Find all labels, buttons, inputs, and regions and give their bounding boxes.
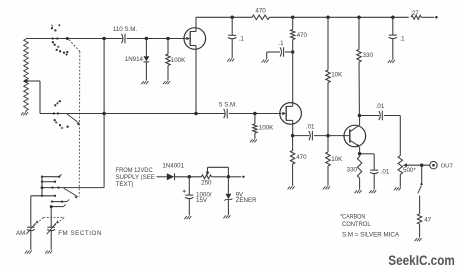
node junction (R5 top) (326, 16, 330, 20)
svg-text:330: 330 (347, 167, 358, 174)
node junction (Q3 collector) (358, 114, 362, 118)
wire (to 9V terminal) (228, 176, 241, 178)
svg-text:500*: 500* (403, 167, 416, 174)
label 5 S.M. (219, 102, 237, 109)
svg-text:27: 27 (412, 10, 419, 17)
ground (C3) (262, 60, 269, 63)
svg-text:470: 470 (296, 154, 307, 161)
ground (R7) (288, 186, 295, 189)
ground (AM cap) (25, 251, 32, 254)
resistor R2 470 (rail) (252, 15, 269, 19)
svg-text:470: 470 (255, 8, 266, 15)
node junction (base divider) (326, 134, 330, 138)
resistor R5 10K (divider upper) (326, 17, 330, 135)
ground (R12) (415, 238, 422, 241)
node junction (R1) (166, 37, 170, 41)
ground (R1) (163, 81, 170, 84)
resistor R4 100K (Q2 gate) (253, 114, 257, 139)
svg-text:CONTROL: CONTROL (342, 221, 371, 228)
label 1000/ (196, 191, 212, 198)
wire (S1c common bar to vertical, y=187.6) (42, 187, 104, 189)
rotary switch S1a wiper (dashed) (69, 40, 80, 52)
capacitor C9 1000/15V (electrolytic) (183, 177, 194, 216)
transistor Q3 (BJT) (344, 125, 366, 147)
variable capacitor C-FM (47, 220, 59, 249)
node junction (Q1 source / S1b line) (194, 112, 198, 116)
wire (Q3 collector) (359, 116, 361, 126)
svg-text:.1: .1 (399, 35, 405, 42)
label 500* (403, 167, 416, 174)
resistor R7 470 (Q2 source) (290, 136, 294, 186)
note *CARBON (340, 213, 365, 220)
svg-text:ZENER: ZENER (236, 197, 258, 204)
label 9V (236, 191, 244, 198)
label TEXT) (116, 181, 134, 188)
note CONTROL (342, 221, 371, 228)
label 470 (R7) (296, 154, 307, 161)
svg-text:TEXT): TEXT) (116, 181, 134, 188)
ground (C6) (369, 190, 376, 193)
label 470 (R3) (297, 32, 308, 39)
note S.M = SILVER MICA (342, 232, 400, 239)
label FM SECTION (58, 230, 102, 237)
svg-text:S.M = SILVER MICA: S.M = SILVER MICA (342, 232, 400, 239)
resistor R12 47 (417, 214, 421, 238)
ground (R11) (394, 187, 401, 190)
rheostat R13 wiper loop (206, 167, 229, 177)
label OUT (441, 164, 454, 170)
resistor R10 330 (emitter) (357, 154, 361, 190)
rotary switch S1c contact bars (31, 174, 62, 197)
wire (Q2 source) (292, 120, 294, 135)
diode D1 1N914 (144, 39, 150, 81)
watermark SeekIC.com (388, 252, 455, 268)
node junction (C7 top) (391, 16, 395, 20)
rotary switch S1a contacts (51, 24, 69, 56)
svg-text:.01: .01 (376, 103, 385, 110)
ground (D3) (223, 215, 230, 218)
label 47 (R12) (424, 217, 431, 224)
potentiometer R11 wiper (403, 163, 430, 167)
switch S2 (418, 183, 423, 214)
rheostat R13 250 (202, 175, 227, 179)
label 100K (R1) (171, 57, 186, 64)
wire (supply in) (157, 176, 167, 178)
ground (coil L1) (21, 112, 28, 115)
rotary switch S1c contacts on common (41, 186, 60, 189)
transistor Q1 (FET) (184, 28, 206, 50)
capacitor C2 .1 (decoupling) (228, 17, 236, 58)
capacitor C6 .01 (emitter bypass) (360, 154, 379, 190)
wire (wiper junction down) (421, 165, 423, 183)
svg-text:5 S.M.: 5 S.M. (219, 102, 237, 109)
terminal OUT (430, 162, 437, 169)
label 110 S.M. (113, 26, 138, 33)
wire (Q3 emitter) (359, 147, 361, 154)
wire (coil top to band switch, y=38.5) (26, 38, 122, 40)
resistor R3 470 (Q2 drain) (291, 17, 295, 52)
svg-text:OUT: OUT (441, 164, 454, 170)
svg-text:*CARBON: *CARBON (340, 213, 365, 220)
node coil tap (24, 79, 28, 83)
capacitor C1 110 S.M. (122, 34, 126, 44)
label .1 (C2) (239, 36, 245, 43)
gang linkage (dashed, variable caps) (32, 217, 65, 227)
capacitor C8 .01 (output coupling) (359, 111, 400, 121)
diode D2 1N4001 (167, 173, 202, 180)
capacitor C7 .1 (rail bypass) (389, 17, 397, 59)
variable capacitor C-AM (26, 220, 38, 249)
ground (C9) (184, 216, 191, 219)
node junction (diode D1) (145, 37, 149, 41)
wire (Q1 drain) (195, 17, 197, 31)
label FROM 12VDC (116, 167, 153, 174)
label 250 (R13) (201, 179, 212, 186)
label 1N914 (125, 56, 144, 63)
svg-text:1N4001: 1N4001 (162, 163, 184, 170)
label 100K (R4) (259, 125, 274, 132)
rotary switch S1d contact bars (50, 199, 69, 208)
svg-text:AM: AM (16, 230, 25, 237)
svg-text:15V: 15V (196, 197, 208, 204)
node junction (Q3 emitter) (358, 152, 362, 156)
node junction (C2) (230, 16, 234, 20)
wire (top supply rail mid) (269, 16, 408, 18)
label ZENER (236, 197, 258, 204)
svg-text:FM SECTION: FM SECTION (58, 230, 102, 237)
label 470 (R2) (255, 8, 266, 15)
label .01 (C8) (376, 103, 385, 110)
capacitor C5 .01 (interstage) (293, 131, 350, 141)
svg-text:10K: 10K (331, 72, 343, 79)
label .1 (C7) (399, 35, 405, 42)
node junction (gate line / vertical) (102, 37, 106, 41)
wire (C1 to Q1 gate) (127, 38, 186, 40)
resistor R8 10K (divider lower) (326, 136, 330, 186)
ground (R8) (323, 186, 330, 189)
svg-text:1N914: 1N914 (125, 56, 144, 63)
svg-text:47: 47 (424, 217, 431, 224)
node junction (wiper / switch) (420, 163, 424, 167)
svg-text:100K: 100K (259, 125, 274, 132)
resistor R6 330 (collector load) (357, 17, 361, 115)
wire (Q1 source) (195, 46, 197, 114)
svg-text:SeekIC.com: SeekIC.com (388, 252, 455, 268)
switch gang linkage (dashed vertical) (78, 52, 81, 197)
wire (S1d to FM cap) (50, 207, 52, 227)
svg-text:.1: .1 (239, 36, 245, 43)
node 9V terminal (242, 176, 244, 178)
ground (FM cap) (45, 251, 52, 254)
rotary switch S1b contacts (53, 100, 69, 129)
potentiometer R11 500 (carbon) (398, 156, 402, 187)
wire (coil tap to S1b) (26, 81, 40, 114)
label 330 (R10) (347, 167, 358, 174)
label .1 (C3) (278, 40, 284, 47)
node junction (zener) (227, 175, 231, 179)
resistor R9 27 (411, 15, 421, 19)
wire (rail to supply terminal) (421, 16, 434, 18)
wire (top supply rail left) (196, 16, 252, 18)
node junction (R6 top) (357, 16, 361, 20)
diode D3 9V zener (225, 177, 233, 215)
capacitor C3 .1 (Q2 drain bypass) (267, 47, 293, 59)
node supply terminal (435, 16, 438, 19)
ground (C7) (388, 60, 395, 63)
label 15V (196, 197, 208, 204)
capacitor C4 5 S.M. (224, 109, 228, 119)
wire (S1c bar to AM cap) (30, 196, 32, 227)
svg-text:.01: .01 (306, 123, 315, 130)
ground (C2) (227, 59, 234, 62)
svg-text:110 S.M.: 110 S.M. (113, 26, 138, 33)
svg-text:.01: .01 (381, 169, 390, 176)
ground (R10) (355, 190, 362, 193)
label AM (16, 230, 25, 237)
node junction (S1b line / vertical) (102, 112, 106, 116)
node junction (R3 top) (291, 16, 295, 20)
transistor Q2 (FET) (280, 103, 302, 125)
svg-text:SUPPLY (SEE: SUPPLY (SEE (116, 174, 155, 181)
node junction (C9) (188, 175, 192, 179)
node junction (Q2 source) (291, 134, 295, 138)
wire (C8 to volume pot) (399, 116, 401, 156)
wire (S1b line y=113.5) (40, 113, 225, 115)
ground (D1) (141, 81, 148, 84)
label 10K (R8) (331, 156, 343, 163)
svg-text:250: 250 (201, 179, 212, 186)
wire (top line to S1c, x=104.2) (103, 39, 105, 188)
rotary switch S1b wiper (67, 114, 80, 126)
rotary switch S1c wiper (64, 188, 78, 198)
label 10K (R5) (331, 72, 343, 79)
label .01 (C6) (381, 169, 390, 176)
svg-text:330: 330 (363, 52, 374, 59)
wire (C4 to Q2 gate) (229, 113, 282, 115)
coil L1 (antenna/tuning coil) (24, 39, 29, 112)
wire (Q2 drain) (292, 52, 294, 106)
node junction (Q2 drain / C3) (291, 50, 295, 54)
node junction (R4) (253, 112, 257, 116)
label SUPPLY (SEE (116, 174, 155, 181)
svg-text:470: 470 (297, 32, 308, 39)
svg-text:.1: .1 (278, 40, 284, 47)
label .01 (C5) (306, 123, 315, 130)
label 27 (R9) (412, 10, 419, 17)
label 330 (R6) (363, 52, 374, 59)
svg-text:10K: 10K (331, 156, 343, 163)
svg-text:FROM 12VDC: FROM 12VDC (116, 167, 153, 174)
resistor R1 100K (166, 39, 170, 81)
ground (R4) (250, 139, 257, 142)
label 1N4001 (162, 163, 184, 170)
svg-text:100K: 100K (171, 57, 186, 64)
